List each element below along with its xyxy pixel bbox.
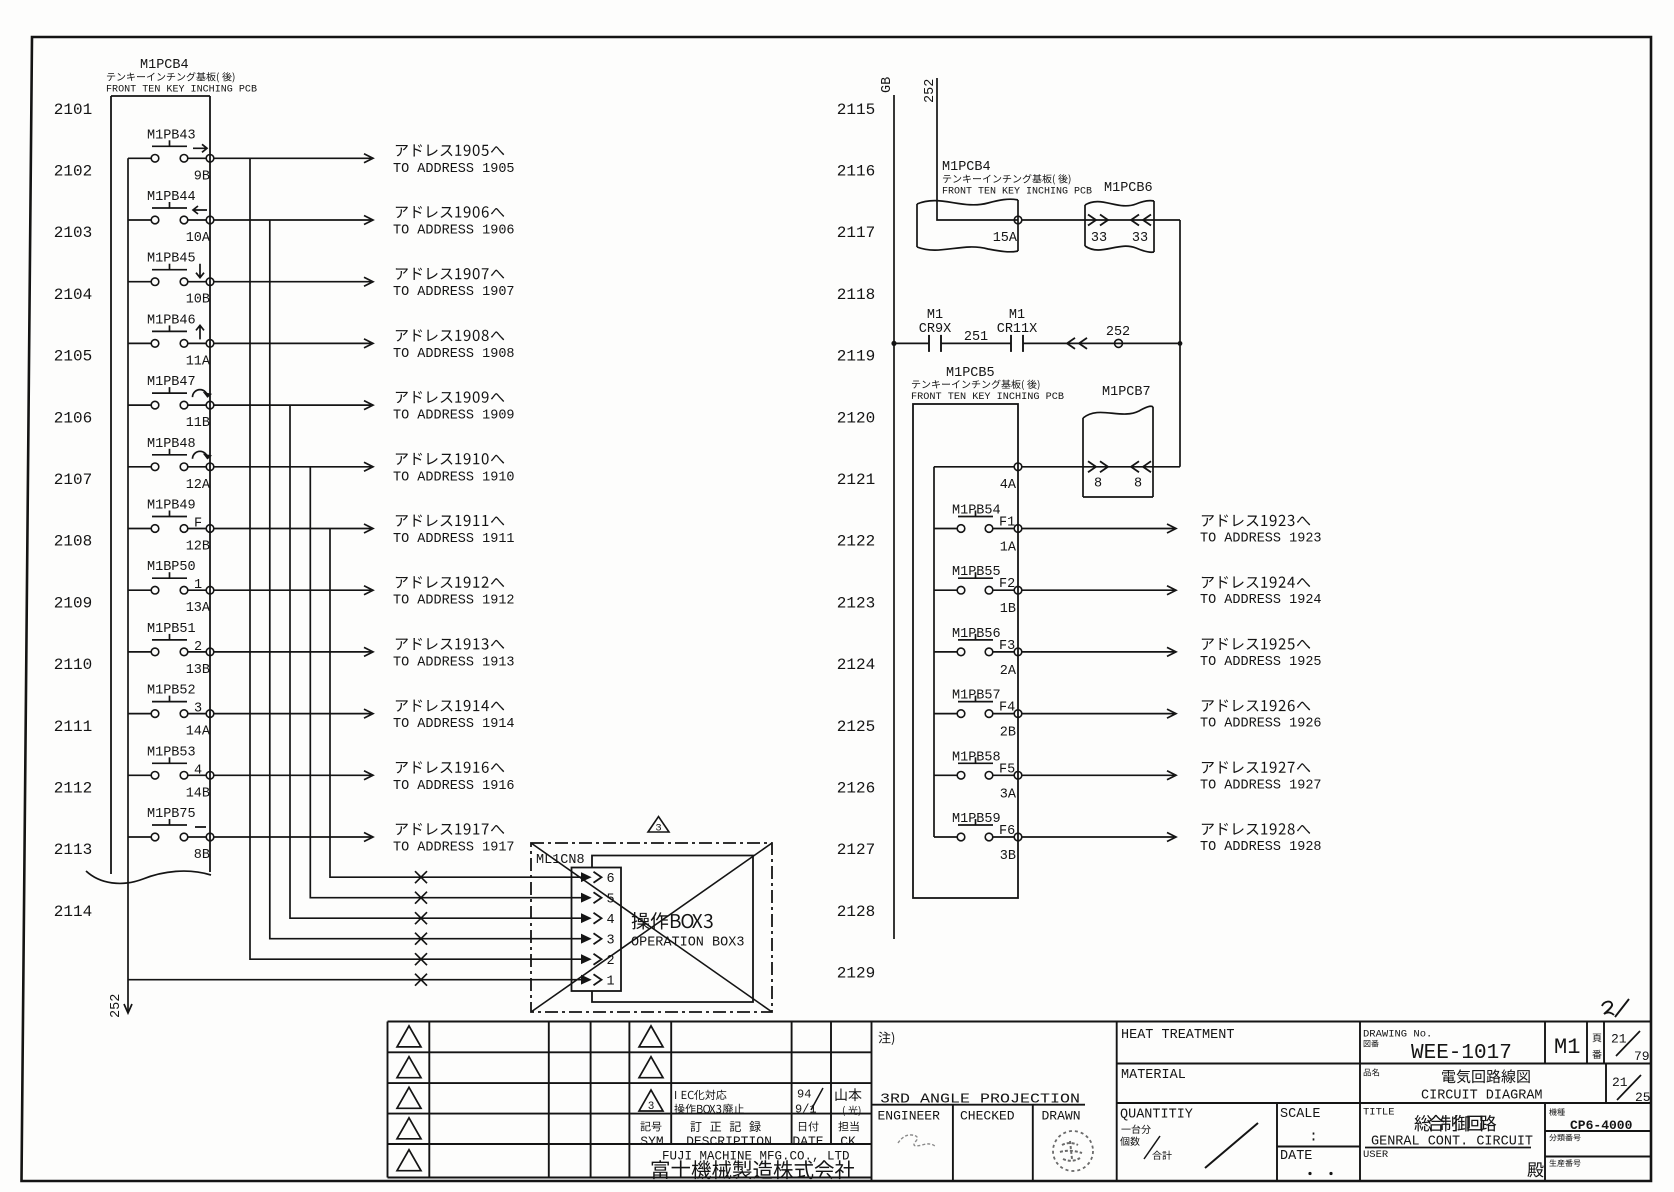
svg-text:CHECKED: CHECKED	[960, 1109, 1015, 1124]
svg-text:3: 3	[194, 702, 202, 717]
symbol right-arrow	[193, 144, 207, 152]
label address-jp 1914	[396, 700, 504, 712]
operation box inner outline	[592, 856, 753, 1003]
terminal 1B	[1014, 586, 1022, 594]
svg-text:3A: 3A	[1000, 787, 1017, 802]
symbol cw-arrowhead	[204, 454, 211, 459]
svg-text:DATE: DATE	[792, 1134, 823, 1149]
pin 1 of ML1CN8	[582, 976, 591, 984]
svg-text:8: 8	[1094, 476, 1102, 491]
terminal 9B	[206, 155, 214, 163]
svg-text:14B: 14B	[186, 786, 210, 801]
svg-text:M1PB44: M1PB44	[147, 190, 196, 205]
terminal 3A	[1014, 772, 1022, 780]
svg-text:13B: 13B	[186, 663, 210, 678]
wire tap row 2108 to CN8 pin 6	[330, 529, 582, 878]
svg-text:2110: 2110	[54, 656, 92, 674]
wire to address 1926	[1022, 713, 1174, 715]
svg-text:4A: 4A	[1000, 478, 1017, 493]
svg-text:3: 3	[606, 934, 614, 949]
svg-text:252: 252	[109, 994, 124, 1018]
wire to address 1927	[1022, 774, 1174, 776]
svg-text:2124: 2124	[837, 656, 875, 674]
svg-text:TO ADDRESS 1909: TO ADDRESS 1909	[393, 409, 515, 424]
engineer signature scribble	[898, 1135, 936, 1147]
svg-text:DESCRIPTION: DESCRIPTION	[686, 1134, 772, 1149]
svg-text:SYM: SYM	[640, 1134, 663, 1149]
svg-text:2102: 2102	[54, 163, 92, 181]
wire to address 1917	[214, 836, 371, 838]
label address-jp 1905	[396, 144, 504, 156]
svg-text:M1BP50: M1BP50	[147, 560, 196, 575]
svg-text:2B: 2B	[1000, 726, 1016, 741]
svg-text:2115: 2115	[837, 101, 875, 119]
wire bus 252 to CN8 pin 1	[128, 979, 582, 981]
wire to address 1909	[214, 404, 371, 406]
svg-text:21: 21	[1612, 1075, 1628, 1090]
svg-text:USER: USER	[1363, 1149, 1389, 1161]
svg-text:ML1CN8: ML1CN8	[536, 853, 585, 868]
svg-text:M1: M1	[1009, 308, 1025, 323]
svg-text:SCALE: SCALE	[1280, 1107, 1321, 1122]
svg-text:M1PB43: M1PB43	[147, 128, 196, 143]
terminal 14A	[206, 710, 214, 718]
wire to address 1907	[214, 281, 371, 283]
svg-text::: :	[1309, 1129, 1318, 1146]
svg-text:TO ADDRESS 1908: TO ADDRESS 1908	[393, 347, 515, 362]
svg-text:2104: 2104	[54, 286, 92, 304]
svg-text:M1PB52: M1PB52	[147, 684, 196, 699]
svg-text:94: 94	[797, 1088, 811, 1102]
svg-text:2129: 2129	[837, 965, 875, 983]
svg-text:HEAT TREATMENT: HEAT TREATMENT	[1121, 1028, 1234, 1043]
svg-text:1: 1	[194, 578, 202, 593]
date dot	[1329, 1172, 1332, 1175]
svg-text:M1PCB5: M1PCB5	[946, 366, 995, 381]
svg-text:13A: 13A	[186, 601, 211, 616]
svg-text:DRAWN: DRAWN	[1042, 1109, 1081, 1124]
note + projection	[878, 1032, 894, 1045]
svg-text:M1: M1	[1554, 1035, 1580, 1060]
label address-jp 1924	[1202, 576, 1310, 588]
svg-text:14A: 14A	[186, 725, 211, 740]
svg-text:252: 252	[923, 79, 938, 103]
svg-text:5: 5	[606, 893, 614, 908]
wire tap row 2102 to CN8 pin 2	[250, 158, 582, 959]
svg-text:WEE-1017: WEE-1017	[1411, 1042, 1512, 1065]
terminal 14B	[206, 772, 214, 780]
svg-text:9B: 9B	[194, 169, 210, 184]
wire 2119 to riser, terminal 252	[1023, 342, 1180, 344]
date dot	[1308, 1172, 1311, 1175]
svg-text:TO ADDRESS 1913: TO ADDRESS 1913	[393, 655, 515, 670]
label address-jp 1906	[396, 206, 504, 218]
svg-text:11B: 11B	[186, 416, 210, 431]
svg-text:2113: 2113	[54, 841, 92, 859]
arrow 252 down	[124, 1004, 132, 1013]
svg-text:CIRCUIT DIAGRAM: CIRCUIT DIAGRAM	[1421, 1089, 1543, 1104]
svg-text:2101: 2101	[54, 101, 92, 119]
label address-jp 1917	[396, 823, 504, 835]
svg-text:2123: 2123	[837, 594, 875, 612]
terminal 2A	[1014, 648, 1022, 656]
svg-text:2117: 2117	[837, 224, 875, 242]
bus inside M1PCB5	[933, 467, 935, 837]
wire to address 1908	[214, 342, 371, 344]
svg-text:TO ADDRESS 1910: TO ADDRESS 1910	[393, 470, 515, 485]
svg-text:MATERIAL: MATERIAL	[1121, 1068, 1186, 1083]
pin 6 of ML1CN8	[582, 873, 591, 881]
symbol dash	[195, 826, 206, 828]
title block	[388, 1021, 1652, 1023]
label tenkey board jp	[912, 380, 1040, 390]
svg-text:TO ADDRESS 1912: TO ADDRESS 1912	[393, 594, 515, 609]
svg-text:3: 3	[648, 1101, 655, 1113]
label address-jp 1913	[396, 638, 504, 650]
label address-jp 1911	[396, 514, 504, 526]
revision triangles (left table)	[397, 1026, 421, 1047]
label address-jp 1927	[1202, 761, 1310, 773]
label tenkey board jp	[943, 174, 1071, 184]
symbol cw-arc	[193, 451, 208, 458]
terminal 15A	[1014, 216, 1022, 224]
break line M1PCB4 bottom	[86, 871, 211, 883]
svg-text:3: 3	[655, 823, 661, 835]
svg-text:8B: 8B	[194, 848, 210, 863]
svg-text:2108: 2108	[54, 533, 92, 551]
svg-text:4: 4	[606, 913, 614, 928]
svg-text:CR11X: CR11X	[997, 322, 1038, 337]
wire 252 drop (top right)	[937, 78, 1018, 220]
svg-text:M1PB48: M1PB48	[147, 437, 196, 452]
svg-text:TO ADDRESS 1917: TO ADDRESS 1917	[393, 841, 515, 856]
svg-text:2128: 2128	[837, 903, 875, 921]
label address-jp 1909	[396, 391, 504, 403]
wire to address 1916	[214, 774, 371, 776]
revision header row	[640, 1122, 661, 1132]
pin 2 of ML1CN8	[582, 955, 591, 963]
junction riser/2119	[1178, 341, 1183, 346]
svg-text:QUANTITIY: QUANTITIY	[1120, 1108, 1193, 1123]
pin 4 of ML1CN8	[582, 914, 591, 922]
label address-jp 1907	[396, 268, 504, 280]
wire right riser 2117-2121	[1179, 220, 1181, 467]
svg-text:CP6-4000: CP6-4000	[1570, 1118, 1633, 1133]
svg-text:TO ADDRESS 1906: TO ADDRESS 1906	[393, 224, 515, 239]
connector board M1PCB4 (right)	[917, 199, 1018, 205]
svg-text:2118: 2118	[837, 286, 875, 304]
wire to address 1910	[214, 466, 371, 468]
wire to address 1905	[214, 157, 371, 159]
label tenkey inching board (rear)	[107, 72, 235, 82]
svg-text:CK: CK	[840, 1134, 856, 1149]
svg-text:M1PB47: M1PB47	[147, 375, 196, 390]
symbol cw-arrowhead	[204, 393, 211, 398]
wire 2117 to M1PCB6	[1022, 219, 1180, 221]
svg-text:F: F	[194, 517, 202, 532]
svg-text:TO ADDRESS 1916: TO ADDRESS 1916	[393, 779, 515, 794]
svg-text:2: 2	[606, 954, 614, 969]
svg-text:TO ADDRESS 1925: TO ADDRESS 1925	[1200, 655, 1322, 670]
symbol up-arrow	[196, 325, 204, 339]
wire 2121, terminal 4A	[934, 466, 1014, 468]
wire to address 1925	[1022, 651, 1174, 653]
svg-text:2A: 2A	[1000, 664, 1017, 679]
operation box OPERATION BOX3 (dash-dot outline, crossed out)	[531, 843, 772, 1012]
svg-text:DATE: DATE	[1280, 1149, 1312, 1164]
label address-jp 1910	[396, 453, 504, 465]
svg-text:M1PCB7: M1PCB7	[1102, 385, 1151, 400]
svg-text:M1PB75: M1PB75	[147, 807, 196, 822]
svg-text:2116: 2116	[837, 163, 875, 181]
svg-text:TO ADDRESS 1927: TO ADDRESS 1927	[1200, 778, 1322, 793]
label address-jp 1928	[1202, 823, 1310, 835]
terminal 12A	[206, 463, 214, 471]
terminal 10A	[206, 216, 214, 224]
svg-text:M1PB53: M1PB53	[147, 745, 196, 760]
svg-text:TO ADDRESS 1924: TO ADDRESS 1924	[1200, 593, 1322, 608]
svg-text:2127: 2127	[837, 841, 875, 859]
relay contact M1 CR9X	[928, 335, 930, 352]
quantity slash	[1205, 1123, 1258, 1168]
svg-text:2120: 2120	[837, 409, 875, 427]
revision triangles (right table)	[639, 1026, 663, 1047]
svg-text:TO ADDRESS 1914: TO ADDRESS 1914	[393, 717, 515, 732]
drawn stamp	[1053, 1131, 1093, 1171]
svg-text:1B: 1B	[1000, 602, 1016, 617]
terminal 1A	[1014, 525, 1022, 533]
svg-text:M1PCB4: M1PCB4	[942, 160, 991, 175]
svg-text:2111: 2111	[54, 718, 92, 736]
wire to address 1913	[214, 651, 371, 653]
svg-text:TO ADDRESS 1923: TO ADDRESS 1923	[1200, 532, 1322, 547]
terminal 11B	[206, 401, 214, 409]
connector board M1PCB4 (left)	[111, 95, 210, 97]
svg-text:2106: 2106	[54, 409, 92, 427]
svg-text:252: 252	[1106, 325, 1130, 340]
svg-text:2107: 2107	[54, 471, 92, 489]
terminal 3B	[1014, 833, 1022, 841]
svg-text:15A: 15A	[993, 231, 1018, 246]
svg-text:2: 2	[194, 640, 202, 655]
wire tap row 2107 to CN8 pin 5	[310, 467, 582, 898]
svg-text:21: 21	[1611, 1032, 1627, 1047]
label address-jp 1908	[396, 329, 504, 341]
svg-text:33: 33	[1091, 231, 1107, 246]
svg-text:12A: 12A	[186, 478, 211, 493]
svg-text:2126: 2126	[837, 780, 875, 798]
wire to address 1912	[214, 589, 371, 591]
wire tap row 2103 to CN8 pin 3	[270, 220, 582, 939]
label address-jp 1926	[1202, 700, 1310, 712]
svg-text:2109: 2109	[54, 594, 92, 612]
label address-jp 1925	[1202, 638, 1310, 650]
svg-text:79: 79	[1634, 1049, 1650, 1064]
revision row 3 text	[675, 1090, 726, 1100]
svg-text:2103: 2103	[54, 224, 92, 242]
svg-text:M1PCB6: M1PCB6	[1104, 181, 1153, 196]
symbol left-arrow	[193, 206, 207, 214]
svg-text:M1PB49: M1PB49	[147, 499, 196, 514]
wire bus GB	[893, 95, 895, 939]
svg-text:ENGINEER: ENGINEER	[878, 1109, 941, 1124]
cross-out diagonal 2	[531, 843, 772, 1012]
connector board M1PCB5	[913, 404, 1018, 898]
terminal 2B	[1014, 710, 1022, 718]
connector M1PCB6	[1085, 201, 1154, 206]
machine type	[1549, 1108, 1564, 1115]
symbol down-arrow	[196, 264, 204, 278]
wire bus 252 (left)	[127, 158, 129, 1012]
svg-text:2114: 2114	[54, 903, 92, 921]
terminal 13A	[206, 586, 214, 594]
svg-text:TITLE: TITLE	[1363, 1107, 1395, 1119]
pin 5 of ML1CN8	[582, 894, 591, 902]
junction GB/2119	[891, 341, 896, 346]
svg-text:TO ADDRESS 1928: TO ADDRESS 1928	[1200, 840, 1322, 855]
warning triangle 3 (above operation box)	[648, 817, 669, 833]
wire to address 1923	[1022, 528, 1174, 530]
svg-text:DRAWING No.: DRAWING No.	[1363, 1029, 1432, 1041]
svg-text:1A: 1A	[1000, 541, 1017, 556]
terminal 11A	[206, 340, 214, 348]
svg-text:2121: 2121	[837, 471, 875, 489]
terminal 8B	[206, 833, 214, 841]
svg-text:10A: 10A	[186, 231, 211, 246]
wire 251	[941, 342, 1011, 344]
relay contact M1 CR11X	[1010, 335, 1012, 352]
terminal 12B	[206, 525, 214, 533]
svg-text:2119: 2119	[837, 348, 875, 366]
wire to address 1914	[214, 713, 371, 715]
svg-text:2112: 2112	[54, 780, 92, 798]
terminal 10B	[206, 278, 214, 286]
product name	[1364, 1068, 1379, 1076]
svg-text:25: 25	[1635, 1090, 1651, 1105]
svg-text:251: 251	[964, 330, 988, 345]
svg-text:9/1: 9/1	[795, 1103, 817, 1117]
label address-jp 1923	[1202, 514, 1310, 526]
svg-text:M1PCB4: M1PCB4	[140, 58, 189, 73]
svg-text:11A: 11A	[186, 354, 211, 369]
svg-text:10B: 10B	[186, 293, 210, 308]
handwritten page mark 2/	[1602, 1002, 1614, 1015]
connector M1PCB7	[1083, 406, 1153, 418]
svg-text:4: 4	[194, 763, 202, 778]
svg-text:8: 8	[1134, 476, 1142, 491]
svg-text:M1: M1	[927, 308, 943, 323]
svg-text:12B: 12B	[186, 540, 210, 555]
svg-text:3RD ANGLE PROJECTION: 3RD ANGLE PROJECTION	[880, 1092, 1080, 1108]
svg-text:33: 33	[1132, 231, 1148, 246]
svg-text:TO ADDRESS 1926: TO ADDRESS 1926	[1200, 717, 1322, 732]
svg-text:TO ADDRESS 1911: TO ADDRESS 1911	[393, 532, 515, 547]
svg-text:2125: 2125	[837, 718, 875, 736]
svg-text:TO ADDRESS 1907: TO ADDRESS 1907	[393, 285, 515, 300]
label operation box3 jp	[632, 912, 713, 929]
svg-text:FRONT TEN KEY INCHING PCB: FRONT TEN KEY INCHING PCB	[942, 186, 1092, 198]
svg-text:M1PB51: M1PB51	[147, 622, 196, 637]
svg-text:2105: 2105	[54, 348, 92, 366]
svg-text:M1PB45: M1PB45	[147, 252, 196, 267]
wire to address 1924	[1022, 589, 1174, 591]
label address-jp 1916	[396, 761, 504, 773]
svg-text:6: 6	[606, 872, 614, 887]
wire to address 1911	[214, 528, 371, 530]
wire tap row 2106 to CN8 pin 4	[290, 405, 582, 918]
svg-text:2122: 2122	[837, 533, 875, 551]
svg-text:TO ADDRESS 1905: TO ADDRESS 1905	[393, 162, 515, 177]
wire to address 1906	[214, 219, 371, 221]
svg-text:OPERATION BOX3: OPERATION BOX3	[631, 936, 744, 951]
wire to address 1928	[1022, 836, 1174, 838]
svg-text:GB: GB	[880, 77, 895, 93]
svg-text:FRONT TEN KEY INCHING PCB: FRONT TEN KEY INCHING PCB	[106, 84, 257, 96]
svg-text:3B: 3B	[1000, 849, 1016, 864]
svg-text:FUJI MACHINE MFG.CO., LTD: FUJI MACHINE MFG.CO., LTD	[662, 1150, 850, 1164]
svg-text:CR9X: CR9X	[919, 322, 951, 337]
symbol cw-arc	[193, 390, 208, 397]
cross-out diagonal 1	[531, 843, 772, 1012]
label address-jp 1912	[396, 576, 504, 588]
pin 3 of ML1CN8	[582, 935, 591, 943]
svg-text:FRONT TEN KEY INCHING PCB: FRONT TEN KEY INCHING PCB	[911, 391, 1064, 403]
svg-text:M1PB46: M1PB46	[147, 313, 196, 328]
svg-text:1: 1	[606, 975, 614, 990]
terminal 13B	[206, 648, 214, 656]
